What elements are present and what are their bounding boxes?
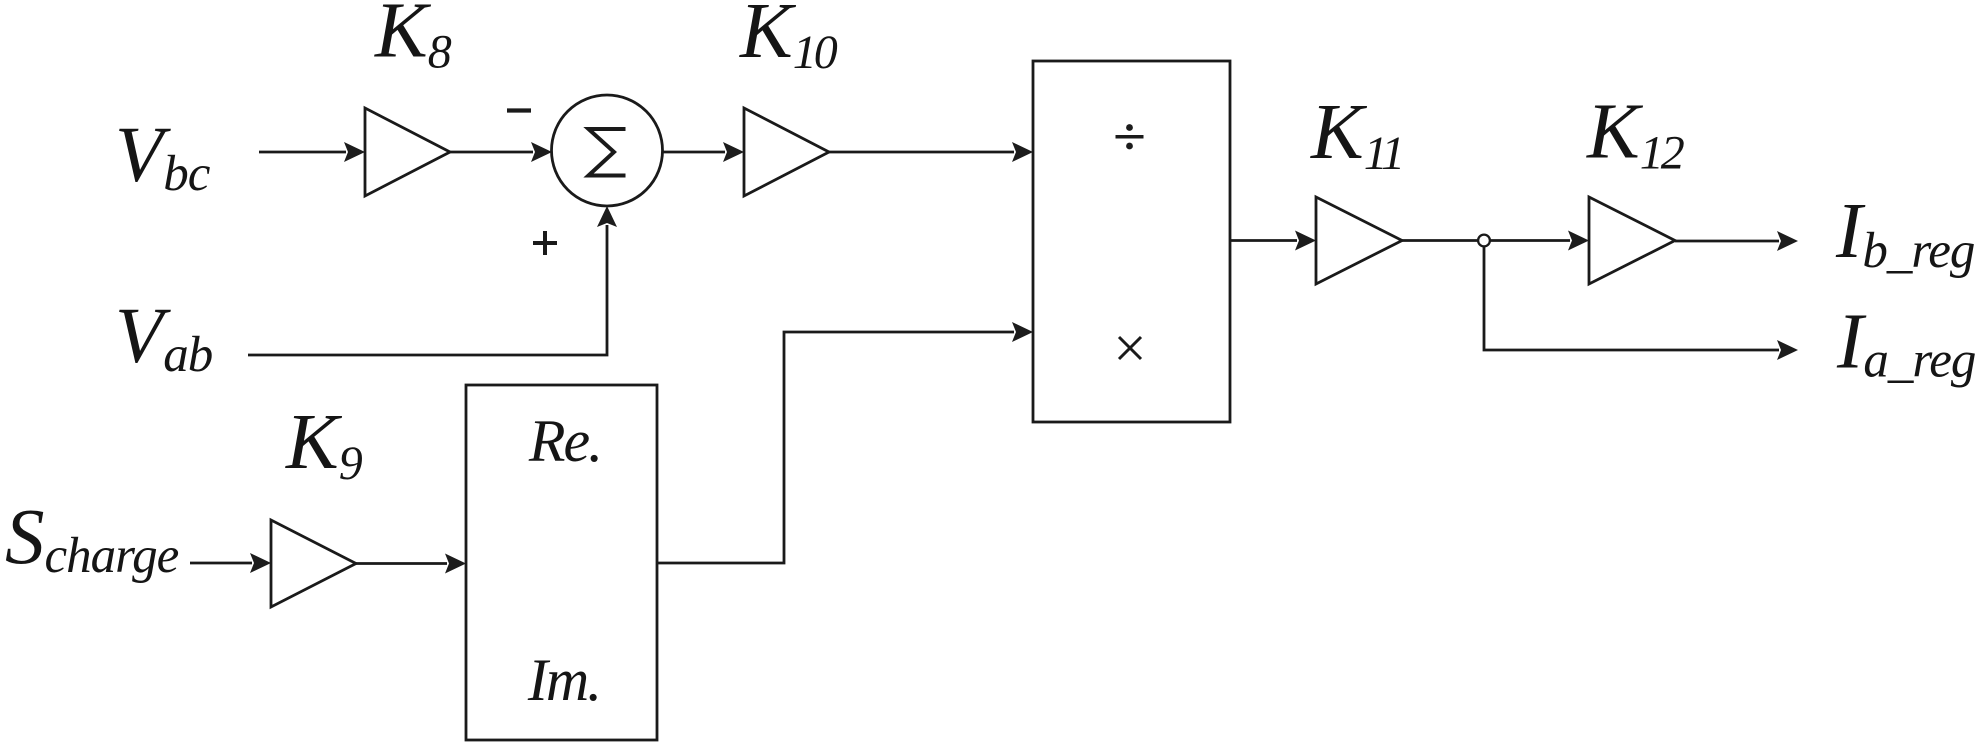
multiply sign in block: [1119, 337, 1141, 359]
plus sign at summer bottom input: [533, 231, 557, 255]
wire from K10 to divider block top input: [829, 142, 1033, 162]
branch node (open circle): [1478, 235, 1490, 247]
wire from node down and right to output I_a_reg: [1484, 247, 1798, 360]
divide-multiply block: [1033, 61, 1230, 422]
wire from Re/Im block up and right to multiplier input of divider block: [657, 322, 1033, 563]
minus sign at summer top input: [507, 108, 531, 112]
wire from K11 to branch node: [1402, 239, 1478, 242]
wire from K8 to summing junction: [450, 142, 552, 162]
wire from node to gain K12: [1490, 231, 1589, 251]
wire from S_charge to gain K9: [190, 553, 271, 573]
wire from summer to gain K10: [663, 142, 745, 162]
divide sign in block: [1116, 124, 1144, 149]
gain K9 (amplifier triangle): [271, 520, 356, 607]
summing junction U-sum: [552, 95, 663, 206]
gain K10 (amplifier triangle): [744, 108, 829, 196]
wire from V_bc into gain K8: [259, 142, 365, 162]
gain K11 (amplifier triangle): [1316, 197, 1402, 284]
gain K12 (amplifier triangle): [1589, 197, 1675, 284]
Re/Im block: [466, 385, 657, 740]
svg-text:Re.: Re.: [528, 408, 601, 474]
wire from V_ab up into summing junction: [248, 206, 617, 355]
wire from divider block to gain K11: [1230, 231, 1316, 251]
wire from K12 to output I_b_reg: [1675, 231, 1798, 251]
gain K8 (amplifier triangle): [365, 108, 450, 196]
wire from K9 to Re/Im block: [356, 554, 466, 574]
svg-text:Im.: Im.: [527, 647, 600, 713]
